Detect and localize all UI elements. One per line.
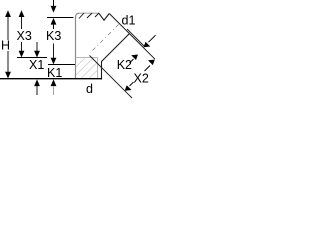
svg-text:X2: X2 [134,71,149,85]
svg-text:K1: K1 [47,66,62,80]
svg-text:K3: K3 [46,29,61,43]
svg-text:d1: d1 [122,14,136,28]
svg-text:d: d [86,82,93,96]
svg-text:X1: X1 [29,58,44,72]
svg-text:K2: K2 [117,58,132,72]
svg-text:X3: X3 [17,29,32,43]
svg-text:H: H [1,39,10,53]
